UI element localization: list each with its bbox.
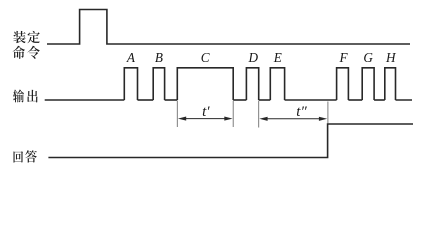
pulse A (124, 68, 137, 100)
svg-text:C: C (201, 50, 210, 65)
pulse E (270, 68, 284, 100)
signal label 装定命令, line 2: 命令 (13, 46, 40, 59)
extension line at pulse C falling edge (232, 101, 234, 127)
svg-text:E: E (273, 50, 282, 65)
arrowhead left (t&#8243;) (259, 117, 267, 121)
dimension arrow for t&#8242; under pulse C (178, 117, 233, 121)
wire (259, 99, 271, 101)
svg-text:H: H (385, 50, 397, 65)
arrowhead right (t&#8243;) (319, 117, 327, 121)
wire (374, 99, 385, 101)
pulse D (246, 68, 258, 100)
arrowhead left (t&#8242;) (178, 117, 186, 121)
svg-text:G: G (363, 50, 373, 65)
wire: 回答 waveform (low level, rising edge, high level) (48, 124, 413, 158)
wire (138, 99, 154, 101)
signal label 回答 (14, 150, 37, 162)
extension line at pulse C rising edge (176, 101, 178, 127)
svg-text:F: F (338, 50, 348, 65)
svg-text:D: D (248, 50, 259, 65)
pulse G (362, 68, 374, 100)
wire: 输出 baseline end (396, 99, 413, 101)
signal label 装定命令, line 1: 装定 (13, 31, 40, 43)
pulse F (337, 68, 349, 100)
dimension arrow for t&#8243; from pulse D falling edge to 回答 rising edge (259, 117, 327, 121)
svg-text:t″: t″ (296, 104, 307, 120)
wire: 装定命令 waveform with single pulse (47, 10, 410, 45)
wire (348, 99, 362, 101)
svg-text:B: B (155, 50, 163, 65)
wire (233, 99, 246, 101)
arrowhead right (t&#8242;) (224, 117, 232, 121)
pulse H (385, 68, 396, 100)
pulse B (153, 68, 164, 100)
wire (285, 99, 337, 101)
wire: 输出 baseline start (45, 99, 125, 101)
extension line at pulse D falling edge (258, 101, 260, 128)
svg-text:t′: t′ (202, 104, 210, 120)
wire (165, 99, 178, 101)
svg-text:A: A (126, 50, 136, 65)
signal label 输出 (13, 89, 38, 102)
extension line above 回答 rising edge (327, 102, 329, 124)
pulse C (wide, duration t&#8242;) (177, 68, 233, 100)
